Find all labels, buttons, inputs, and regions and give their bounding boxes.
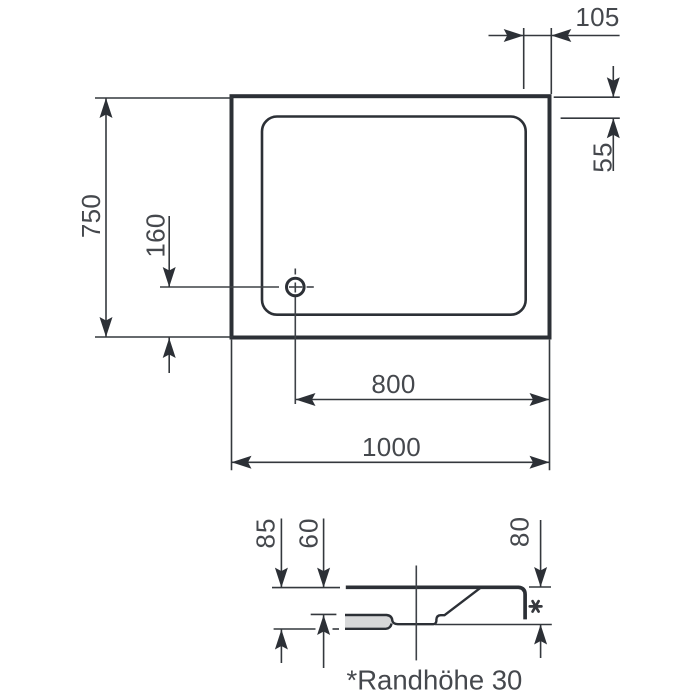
dimension 80 — [435, 520, 552, 658]
asterisk marker — [530, 601, 542, 611]
svg-text:1000: 1000 — [362, 432, 421, 462]
dimension 55 — [554, 66, 620, 171]
svg-text:60: 60 — [294, 517, 324, 548]
dimension 800 — [296, 399, 550, 401]
dimension 85 — [280, 519, 282, 664]
drain horizontal centerline — [160, 286, 314, 288]
svg-text:800: 800 — [371, 369, 415, 399]
dimension 750 — [95, 98, 233, 337]
tray bottom slab (gray fill) — [345, 616, 392, 627]
dimension 105 — [489, 28, 620, 94]
svg-text:750: 750 — [76, 194, 106, 238]
section centerline — [415, 566, 417, 661]
extension lines left of section — [272, 588, 340, 629]
dimension 160 — [168, 216, 170, 373]
drain vertical centerline — [294, 269, 296, 405]
section profile bottom line — [345, 624, 392, 629]
section profile upper line with drain recess — [345, 588, 481, 625]
svg-text:105: 105 — [575, 2, 619, 32]
top surface / right rim (thick) — [346, 587, 525, 619]
svg-text:*Randhöhe 30: *Randhöhe 30 — [347, 665, 523, 696]
outer tray rectangle — [232, 96, 550, 337]
svg-text:80: 80 — [505, 516, 535, 547]
drain circle — [287, 278, 305, 296]
svg-text:160: 160 — [141, 213, 171, 257]
dimension 1000 — [232, 340, 550, 471]
svg-text:85: 85 — [251, 517, 281, 548]
inner tray basin rounded rectangle — [262, 117, 526, 315]
dimension 60 — [323, 519, 325, 669]
svg-text:55: 55 — [588, 141, 618, 172]
